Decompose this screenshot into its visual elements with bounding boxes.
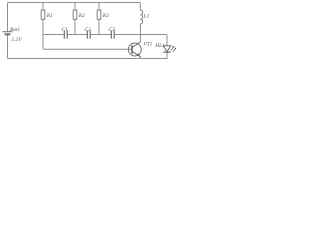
svg-text:R1: R1 <box>46 13 53 19</box>
capacitor C3 plates <box>111 31 114 39</box>
svg-text:C3: C3 <box>109 27 116 33</box>
svg-text:L1: L1 <box>143 14 150 20</box>
svg-text:VT1: VT1 <box>143 41 152 47</box>
svg-text:1.2V: 1.2V <box>12 37 23 43</box>
resistor R1 body <box>41 10 45 19</box>
wire: left battery lead lower + bottom rail <box>8 35 168 58</box>
wire: C1 to C2 through R2 node <box>68 34 87 36</box>
wire: top supply rail <box>8 3 141 32</box>
svg-text:C2: C2 <box>85 27 92 33</box>
wire: LED cathode to bottom rail <box>166 52 168 58</box>
battery Bat1 short thick plate <box>5 33 11 35</box>
capacitor C2 plates <box>87 31 90 39</box>
wire: emitter down to bottom rail <box>139 57 141 59</box>
inductor L1 coil <box>140 10 142 24</box>
battery Bat1 long plate <box>3 31 13 33</box>
wire: R1 bottom lead down to mid node <box>42 19 44 34</box>
svg-text:HL1: HL1 <box>154 43 165 49</box>
wire: R3 top lead <box>98 3 100 11</box>
transistor VT1 <box>128 42 141 57</box>
svg-text:C1: C1 <box>62 27 69 33</box>
wire: R1 top lead <box>42 3 44 11</box>
svg-text:Bat1: Bat1 <box>10 27 20 33</box>
wire: R2 bottom lead <box>74 19 76 34</box>
resistor R3 body <box>97 10 101 19</box>
svg-text:R2: R2 <box>78 13 85 19</box>
wire: mid ladder segment node A to C1 <box>43 34 64 36</box>
capacitor C1 plates <box>64 31 67 39</box>
wire: coil bottom to collector <box>139 24 141 42</box>
svg-text:R3: R3 <box>102 13 109 19</box>
wire: node A down to base wire <box>43 35 132 50</box>
wire: R2 top lead <box>74 3 76 11</box>
wire: C3 to collector node to LED corner <box>115 35 167 46</box>
LED HL1 <box>163 46 176 52</box>
wire: R3 bottom lead <box>98 19 100 34</box>
wire: C2 to C3 through R3 node <box>91 34 111 36</box>
resistor R2 body <box>73 10 77 19</box>
